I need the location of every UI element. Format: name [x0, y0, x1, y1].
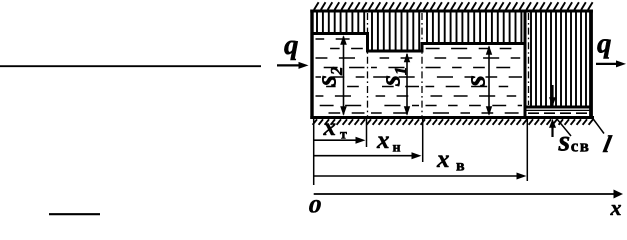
l leader line: [593, 118, 605, 134]
dimension arrow x_n: [314, 155, 413, 157]
water surface section 1: [312, 32, 369, 35]
water body dashed fill: [316, 39, 523, 113]
top confining line: [310, 10, 593, 13]
svg-text:q: q: [597, 28, 612, 60]
s_cv leader line: [557, 119, 571, 136]
arrow q outflow: [596, 63, 617, 65]
dash-dot boundary line node 2 (x_n plane): [421, 13, 423, 116]
x axis: [314, 193, 615, 195]
svg-text:x: x: [610, 195, 622, 216]
seepage layer dashed water line: [528, 112, 588, 114]
svg-text:sсв: sсв: [558, 125, 591, 158]
extension line at left wall: [313, 119, 315, 185]
water surface section 2: [366, 50, 424, 53]
right wall of stratum: [589, 10, 593, 120]
water surface section 3: [421, 42, 527, 45]
right block left boundary: [524, 11, 527, 118]
dash-dot boundary line node 3 (x_v plane): [528, 13, 530, 105]
roof hatch section 3 (above s water): [427, 12, 521, 42]
svg-text:xн: xн: [376, 127, 401, 156]
dimension arrow s1: [406, 54, 408, 115]
hatching below bottom confining line: [313, 119, 593, 125]
s_cv upper arrow (points down to seepage layer): [551, 85, 553, 98]
dash-dot boundary line node 1 (x_t plane): [367, 13, 369, 116]
dimension arrow s: [488, 47, 490, 115]
svg-text:xв: xв: [436, 146, 465, 175]
svg-text:l: l: [601, 131, 614, 158]
svg-text:s: s: [460, 75, 492, 87]
svg-text:s1: s1: [376, 67, 411, 87]
roof hatch section 2 (above s1 water): [372, 12, 419, 50]
horizontal rule (left page fragment): [0, 65, 261, 67]
right block hatch bottom line: [525, 106, 591, 109]
bottom confining line: [310, 116, 594, 119]
dimension arrow x_v: [314, 175, 518, 177]
dimension arrow x_t: [314, 139, 357, 141]
extension line x_v: [526, 119, 528, 181]
dimension arrow s2: [343, 37, 345, 115]
roof hatch section 4 (right block over seepage layer): [531, 12, 586, 106]
hatching above top confining line: [314, 2, 593, 10]
step boundary 1: [366, 32, 369, 53]
extension line x_n: [422, 119, 424, 162]
s_cv lower arrow (points up to layer bottom): [549, 119, 556, 128]
left wall of stratum: [310, 10, 313, 120]
svg-text:q: q: [284, 29, 299, 61]
short underline fragment (bottom left): [49, 213, 100, 215]
svg-text:0: 0: [309, 195, 322, 216]
svg-text:s2: s2: [312, 66, 347, 87]
extension line x_t: [366, 119, 368, 147]
arrow q inflow: [277, 64, 300, 66]
step boundary 2: [421, 42, 424, 53]
roof hatch section 1 (above s2 water): [317, 12, 364, 32]
seepage layer thin line: [527, 109, 590, 111]
